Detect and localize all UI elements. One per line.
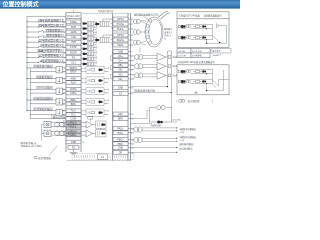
motor encoder plug inner rim <box>149 19 162 44</box>
output label box row 1 <box>34 65 53 68</box>
strip2 pin box GND pin 16 <box>113 86 128 90</box>
svg-text:伺服报警输出: 伺服报警输出 <box>37 75 53 79</box>
junction dot row INH <box>27 42 28 43</box>
GND bus junction dot <box>167 86 168 87</box>
pulse circuits link wire <box>99 128 101 130</box>
input label box FSTP <box>41 44 64 47</box>
receiver bus top cap <box>168 50 172 52</box>
io table row 1 <box>177 49 191 54</box>
relay row 2 output terminal <box>178 36 180 39</box>
svg-text:伺服使能输入: 伺服使能输入 <box>46 28 63 32</box>
switch INH <box>38 41 43 43</box>
strip2 pin box PULS+ pin 2 <box>113 22 128 26</box>
pulse input resistor comb 1 <box>99 21 110 23</box>
connector footprint dashed strip <box>72 153 134 159</box>
plug cable arc <box>158 11 168 18</box>
output label box row 2 <box>36 76 53 79</box>
twisted pair icon SIGN a <box>55 131 60 136</box>
input row INH wire <box>27 41 38 43</box>
panel2 output stub <box>219 79 229 81</box>
svg-text:ALM-: ALM- <box>71 81 77 84</box>
strip2 left edge line <box>112 13 114 160</box>
svg-text:OP: OP <box>119 151 123 154</box>
pulse source driver box 2 <box>44 130 51 136</box>
encoder output pair 1 bracket <box>131 55 134 57</box>
relay row 1 coupler pair 2 <box>186 25 188 27</box>
input label box COM+ <box>39 19 64 22</box>
svg-text:表示双绞线: 表示双绞线 <box>38 156 51 160</box>
brake diode <box>157 121 160 124</box>
switch ALRS <box>38 30 43 32</box>
svg-text:CCW驱动禁止输入1: CCW驱动禁止输入1 <box>38 39 63 43</box>
svg-text:COM-: COM- <box>70 118 77 121</box>
pulse optocoupler 2 <box>95 39 98 42</box>
panel2 row 2 end dot <box>206 83 207 84</box>
panel2 row 2 output terminal <box>178 80 180 83</box>
svg-text:PULS-: PULS- <box>70 126 77 128</box>
relay panel bottom dot <box>206 43 207 44</box>
GND output wire <box>131 147 177 149</box>
output label box row 5 <box>34 108 53 111</box>
internal output circuit row 3 <box>86 88 104 95</box>
relay panel junction dot <box>219 42 221 44</box>
twisted pair icon SIGN b <box>64 131 69 136</box>
pin box RSTP <box>66 50 81 54</box>
strip2 pin box OB- pin 11 <box>113 68 128 72</box>
strip2 pin box SIGN+ pin 5 <box>113 38 128 42</box>
svg-text:定位完成输出: 定位完成输出 <box>37 86 53 90</box>
pin box SIGN- (shaded) <box>66 133 81 136</box>
svg-text:DC12~24V: DC12~24V <box>67 14 80 18</box>
svg-text:偏差计数器清零输入: 偏差计数器清零输入 <box>38 49 63 53</box>
pin box FSTP <box>66 45 81 49</box>
input row SON wire <box>27 26 38 28</box>
panel2 row 1 end dot <box>206 73 207 74</box>
panel2 ground symbol <box>195 91 197 93</box>
junction dot output row 4 <box>27 99 28 100</box>
strip2 pin box 24V pin 20 <box>113 112 128 116</box>
svg-text:CCW转矩限制输入1: CCW转矩限制输入1 <box>38 54 63 58</box>
pulse group 2 cell links <box>110 39 113 40</box>
svg-text:GND: GND <box>118 147 124 150</box>
junction dot row RSTP <box>27 52 28 53</box>
input label box RSTP <box>38 50 64 53</box>
svg-text:位置控制模式: 位置控制模式 <box>3 1 39 9</box>
pin box FIL <box>66 55 81 59</box>
panel2 right bus 2 <box>223 70 225 91</box>
switch SON <box>38 25 43 27</box>
svg-text:(+5V): (+5V) <box>180 132 185 134</box>
output row BRK- lower wire <box>30 103 66 105</box>
twisted pair icon PULS a <box>55 122 60 127</box>
relay panel bottom wire <box>207 42 227 44</box>
title bar background <box>0 0 240 9</box>
junction dot row CLE <box>27 37 28 38</box>
strip2 pin box GND pin 7 <box>113 49 128 53</box>
relay row 2 row wires <box>186 34 213 36</box>
relay row 2 resistor <box>196 37 200 39</box>
internal output circuit row 5 <box>86 109 104 116</box>
junction dot row FIL <box>27 57 28 58</box>
pin box SON <box>66 25 81 29</box>
junction dot row SON <box>27 26 28 27</box>
input label box CLE <box>46 34 64 37</box>
pin box SIGN+ (shaded) <box>66 130 81 133</box>
pair brackets for OA OB OZ cells <box>111 55 113 57</box>
input row SC1 wire <box>27 61 38 63</box>
svg-text:ALRS: ALRS <box>70 31 77 34</box>
svg-text:24V: 24V <box>118 113 123 116</box>
svg-text:指令脉冲禁止输入1: 指令脉冲禁止输入1 <box>39 23 63 27</box>
pulse input circuit group 2 top wire <box>103 34 113 36</box>
twisted pair note icon <box>179 99 183 102</box>
strip2 pin box OA+ pin 8 <box>113 54 128 58</box>
COM- wire <box>30 118 66 120</box>
svg-text:CLE: CLE <box>71 36 76 39</box>
output row BRK+ upper wire <box>27 99 66 101</box>
switch FIL <box>38 56 43 58</box>
pin box TLC- <box>66 113 81 117</box>
FG ground wire <box>73 149 75 152</box>
input label box SON <box>39 24 64 27</box>
left bus wire vertical (COM-) <box>26 16 28 111</box>
svg-text:BRK+: BRK+ <box>70 100 77 102</box>
relay row 2 coupler pair 3 <box>202 36 204 38</box>
panel2 row 1 coupler pair 3 <box>202 70 204 72</box>
output row SRDY+ upper wire <box>27 67 66 69</box>
line receiver SIGN <box>86 130 93 137</box>
optocoupler input row INH <box>83 42 86 45</box>
svg-text:FG: FG <box>72 147 75 150</box>
svg-text:PULS+: PULS+ <box>117 23 125 26</box>
svg-text:OA+: OA+ <box>118 55 123 58</box>
encoder output pair 2 bracket <box>131 64 134 66</box>
output receiver wires 1 <box>143 55 158 57</box>
twisted pair icon encoder B <box>133 30 137 35</box>
CN1 connector left edge line <box>65 13 67 152</box>
panel2 transistor wires <box>213 80 219 86</box>
optocoupler input row COM+ <box>83 22 86 25</box>
twisted pair icon bottom B <box>134 137 139 142</box>
output row SRDY- lower wire <box>30 71 66 73</box>
svg-text:PAO+: PAO+ <box>117 127 124 130</box>
pin box SRDY- <box>66 70 81 74</box>
GND wire to bus <box>131 86 168 88</box>
junction dot row ALRS <box>27 31 28 32</box>
svg-text:GND: GND <box>118 87 124 90</box>
pulse internal resistor opto SIGN <box>96 130 107 137</box>
output receiver wires 3 <box>143 73 158 75</box>
panel2 bottom wire <box>207 90 224 92</box>
junction dot row FSTP <box>27 47 28 48</box>
motor encoder plug outer shell <box>145 17 163 47</box>
svg-text:CW转矩限制输入1: CW转矩限制输入1 <box>40 59 63 63</box>
pin box ALM+ <box>66 77 81 81</box>
strip2 pin box OZ- pin 13 <box>113 77 128 81</box>
svg-text:脉冲指令输入(:: 脉冲指令输入(: <box>21 141 38 145</box>
CN1 connector right edge line <box>80 13 82 152</box>
relay example panel box <box>177 19 229 48</box>
strip2 pin box OPC1 pin 1 <box>113 17 128 21</box>
svg-text:OB-: OB- <box>118 69 122 72</box>
svg-text:SIGN+: SIGN+ <box>70 131 78 133</box>
svg-text:COIN-: COIN- <box>70 93 77 95</box>
freq output pair B wires <box>131 138 134 140</box>
pin box TLC+ <box>66 109 81 113</box>
receiver bus right line <box>170 51 172 91</box>
svg-text:报警清除输入: 报警清除输入 <box>46 33 63 37</box>
pin box SC1 <box>66 60 81 64</box>
pulse driver supply stub 2 <box>42 132 45 134</box>
twisted pair icon output 1 <box>135 55 140 60</box>
pulse driver supply stub 1 <box>42 124 45 126</box>
switch FSTP <box>38 46 43 48</box>
strip2 pin box CZ pin 19 <box>113 92 128 96</box>
switch RSTP <box>38 51 43 53</box>
optocoupler example panel box <box>177 65 229 95</box>
pulse input circuit group 1 top wire <box>103 18 113 20</box>
pin box COM+ <box>66 20 81 24</box>
internal output circuit row 4 <box>86 98 104 105</box>
brake wire from pin <box>131 118 148 120</box>
switch COM+ <box>38 20 43 22</box>
connector footprint center box <box>98 154 108 159</box>
svg-text:DICOM: DICOM <box>178 51 185 53</box>
pulse group 1 cell links <box>110 23 113 24</box>
strip2 pin box OB+ pin 10 <box>113 63 128 67</box>
pulse wire SIGN- <box>51 134 66 136</box>
external load box row 2 <box>56 77 63 83</box>
pulse wire SIGN+ <box>51 130 66 132</box>
strip2 pin box PBO+ pin 24 <box>113 137 128 141</box>
svg-text:SRDY-: SRDY- <box>70 72 77 74</box>
svg-text:PULS+: PULS+ <box>70 123 78 125</box>
receiver bus tap 1 <box>168 56 170 59</box>
input row FSTP wire <box>27 46 38 48</box>
svg-text:OPC1: OPC1 <box>117 18 124 21</box>
strip2 pin box BRK pin 21 <box>113 117 128 121</box>
input row RSTP wire <box>27 51 38 53</box>
svg-text:SC1: SC1 <box>71 61 76 64</box>
strip2 pin box OPC2 pin 4 <box>113 33 128 37</box>
pin box COM- <box>66 117 81 121</box>
pin box PULS- (shaded) <box>66 125 81 128</box>
boundary dashed line bottom <box>66 160 131 162</box>
relay row 1 row wires <box>186 23 213 25</box>
pin box BRK+ <box>66 98 81 102</box>
optocoupler input row SC1 <box>83 63 86 66</box>
panel2 row 1 coupler pair 2 <box>186 70 188 72</box>
input label box INH <box>40 39 64 42</box>
twisted pair icon encoder C <box>133 40 137 45</box>
pin box GND lower <box>66 140 81 144</box>
strip2 pin box GND pin 26 <box>113 146 128 150</box>
external load box row 1 <box>56 67 63 73</box>
relay panel supply symbol <box>215 23 217 28</box>
twisted pair icon bottom A <box>134 127 139 132</box>
input label box ALRS <box>46 29 64 32</box>
optocoupler input row RSTP <box>83 53 86 56</box>
relay panel diagonal wire <box>213 36 220 43</box>
receiver output wire 2 <box>166 65 168 67</box>
plug label pointer <box>144 16 151 21</box>
pin box ALRS <box>66 30 81 34</box>
panel2 row 1 output terminal <box>178 70 180 73</box>
line receiver PULS <box>86 121 93 128</box>
pin box SRDY+ <box>66 66 81 70</box>
switch SC1 <box>38 61 43 63</box>
output row ALM- lower wire <box>30 81 66 83</box>
junction dot row SC1 <box>27 62 28 63</box>
svg-text:GND: GND <box>118 50 124 53</box>
pulse internal resistor opto PULS <box>96 121 107 128</box>
svg-text:SRDY+: SRDY+ <box>70 68 78 70</box>
panel2 row 2 resistor <box>196 81 200 83</box>
optocoupler input row CLE <box>83 37 86 40</box>
junction dot output row 1 <box>27 67 28 68</box>
svg-text:电子齿轮选通输入1: 电子齿轮选通输入1 <box>39 18 63 22</box>
junction dot output row 5 <box>27 110 28 111</box>
svg-text:PAO-: PAO- <box>118 132 124 135</box>
svg-text:CW驱动禁止输入1: CW驱动禁止输入1 <box>40 44 63 48</box>
relay row 1 output terminal <box>178 25 180 28</box>
plug pin holes <box>149 19 152 23</box>
supply stub above DC box <box>73 10 75 12</box>
panel2 row 2 coupler pair 2 <box>186 80 188 82</box>
pin box PULS+ (shaded) <box>66 121 81 124</box>
svg-text:ALM+: ALM+ <box>70 78 77 81</box>
svg-text:OZ+: OZ+ <box>118 73 123 76</box>
relay row 1 resistor <box>196 26 200 28</box>
relay panel right bus <box>212 24 214 40</box>
pin box COIN+ <box>66 88 81 92</box>
svg-text:OB+: OB+ <box>118 64 123 67</box>
svg-text:RSTP: RSTP <box>70 51 77 54</box>
svg-text:SIGN-: SIGN- <box>70 135 77 137</box>
line receiver triangle 3 <box>157 72 166 80</box>
OP output wire <box>131 151 177 153</box>
input row FIL wire <box>27 56 38 58</box>
pulse wire PULS- <box>51 125 66 127</box>
output row COIN- lower wire <box>30 92 66 94</box>
svg-text:(DC24V): (DC24V) <box>173 120 181 122</box>
svg-text:SIGN+: SIGN+ <box>117 39 125 42</box>
panel2 row 2 coupler pair 3 <box>202 80 204 82</box>
relay row 1 end dot <box>206 28 207 29</box>
svg-text:INH: INH <box>71 41 75 44</box>
COM- label box <box>51 116 66 119</box>
top supply wire <box>27 15 66 17</box>
relay row 2 coupler pair 2 <box>186 36 188 38</box>
svg-text:SIGN-: SIGN- <box>117 44 124 47</box>
svg-text:BRK-: BRK- <box>71 104 77 106</box>
output row TLC- lower wire <box>30 114 66 116</box>
strip2 pin box PBO- pin 25 <box>113 142 128 146</box>
svg-text:CZ: CZ <box>119 93 123 96</box>
svg-text:伺服准备好输出: 伺服准备好输出 <box>34 64 52 68</box>
switch CLE <box>38 35 43 37</box>
pin box BRK- <box>66 102 81 106</box>
output row ALM+ upper wire <box>27 78 66 80</box>
receiver bus left line <box>167 51 169 85</box>
strip2 connector line <box>130 13 132 160</box>
svg-text:GND: GND <box>71 141 77 144</box>
svg-text:DC12~24V: DC12~24V <box>192 51 203 53</box>
svg-text:OZ-: OZ- <box>118 78 122 81</box>
junction dot output row 3 <box>27 89 28 90</box>
receiver bus tap 2 <box>168 65 170 68</box>
panel2 row 1 resistor <box>196 71 200 73</box>
strip2 pin box OZ+ pin 12 <box>113 72 128 76</box>
Z phase open collector wire <box>131 92 172 94</box>
pulse optocoupler 1 <box>95 23 98 26</box>
svg-text:输出公共端: 输出公共端 <box>53 115 66 119</box>
brake supply wire <box>172 121 178 123</box>
relay panel right bus 2 <box>226 26 228 44</box>
input row COM+ wire <box>27 21 38 23</box>
svg-text:转矩限制中输出: 转矩限制中输出 <box>34 107 52 111</box>
encoder cable wires <box>131 18 134 20</box>
strip2 pin box SIGN- pin 6 <box>113 43 128 47</box>
pulse input resistor comb 2 <box>99 37 110 39</box>
pin box CLE <box>66 35 81 39</box>
svg-text:机械制动器输出: 机械制动器输出 <box>34 96 52 100</box>
receiver output wire 1 <box>166 56 168 58</box>
twisted pair icon PULS b <box>64 122 69 127</box>
optocoupler input row FIL <box>83 58 86 61</box>
receiver bus tap 3 <box>168 74 170 77</box>
strip2 pin box PULS- pin 3 <box>113 27 128 31</box>
panel2 row 2 optocoupler <box>181 80 184 83</box>
svg-text:OA-: OA- <box>118 60 122 63</box>
twisted pair icon encoder A <box>133 19 137 24</box>
twisted pair icon output 2 <box>135 64 140 69</box>
junction dot row COM+ <box>27 21 28 22</box>
pin box COIN- <box>66 91 81 95</box>
external load box row 4 <box>56 99 63 105</box>
freq output B lines to edge <box>142 137 176 139</box>
svg-text:DOCOM: DOCOM <box>178 55 186 57</box>
output row TLC+ upper wire <box>27 110 66 112</box>
Z phase bus junction dot <box>171 92 172 93</box>
relay row 1 coupler pair 3 <box>202 25 204 27</box>
line receiver triangle 1 <box>157 53 166 61</box>
svg-text:COIN+: COIN+ <box>70 89 78 91</box>
output receiver wires 2 <box>143 64 158 66</box>
input row CLE wire <box>27 36 38 38</box>
svg-text:PBO+: PBO+ <box>117 138 124 141</box>
svg-text:(+5V): (+5V) <box>180 140 185 142</box>
optocoupler input row ALRS <box>83 32 86 35</box>
junction dot output row 2 <box>27 78 28 79</box>
optocoupler input row FSTP <box>83 48 86 51</box>
svg-text:TLC+: TLC+ <box>71 111 77 113</box>
line receiver triangle 2 <box>157 62 166 70</box>
brake relay loop <box>150 108 172 123</box>
pulse driver supply rail <box>41 125 43 141</box>
input label box FIL <box>40 55 64 58</box>
strip2 pin box PAO+ pin 22 <box>113 126 128 130</box>
svg-text:BRK: BRK <box>118 118 123 121</box>
strip2 pin box PAO- pin 23 <box>113 131 128 135</box>
svg-text:TLC-: TLC- <box>71 115 76 117</box>
freq output A lines to edge <box>142 127 176 129</box>
pin box INH <box>66 40 81 44</box>
servo driver boundary dashed line top <box>82 12 131 14</box>
svg-text:COM+: COM+ <box>70 21 78 24</box>
pulse wire PULS+ <box>51 122 66 124</box>
io table note box <box>211 49 231 54</box>
